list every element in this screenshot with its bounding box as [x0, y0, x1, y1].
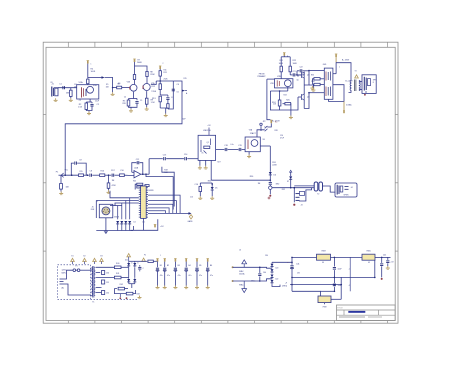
svg-text:C19: C19	[238, 145, 241, 147]
svg-text:D22: D22	[275, 279, 278, 281]
svg-text:C30: C30	[106, 272, 109, 274]
svg-text:Q5: Q5	[297, 80, 299, 82]
svg-text:2: 2	[163, 63, 164, 65]
svg-text:J6: J6	[239, 250, 241, 252]
svg-text:9VAC: 9VAC	[239, 284, 244, 287]
svg-text:R13: R13	[152, 98, 155, 100]
svg-text:T2: T2	[317, 194, 319, 196]
svg-text:U2A: U2A	[134, 166, 139, 169]
svg-text:C18: C18	[224, 145, 227, 147]
svg-text:1: 1	[339, 67, 340, 69]
svg-text:C6: C6	[177, 92, 179, 94]
svg-text:E2: E2	[84, 256, 86, 258]
svg-text:C6: C6	[177, 84, 179, 86]
svg-text:-9: -9	[349, 285, 351, 287]
svg-text:C2: C2	[79, 100, 81, 102]
svg-text:R32: R32	[282, 189, 285, 191]
svg-text:R11: R11	[164, 72, 167, 74]
svg-text:C10: C10	[120, 170, 123, 172]
svg-text:R36: R36	[311, 75, 314, 77]
svg-text:C31: C31	[106, 282, 109, 284]
svg-text:C12: C12	[136, 159, 139, 161]
svg-text:100K: 100K	[91, 71, 96, 73]
svg-text:D2: D2	[134, 222, 136, 224]
svg-text:T3: T3	[355, 71, 357, 73]
svg-text:C45: C45	[383, 254, 386, 256]
svg-text:R15: R15	[79, 171, 82, 173]
svg-text:R6: R6	[117, 83, 119, 85]
svg-text:100K: 100K	[293, 63, 298, 65]
svg-text:47u: 47u	[210, 275, 213, 277]
svg-text:0.1u: 0.1u	[230, 144, 233, 146]
svg-text:D11: D11	[125, 260, 128, 262]
svg-text:C14: C14	[184, 154, 187, 156]
svg-text:C21: C21	[292, 71, 295, 73]
svg-text:R25: R25	[286, 100, 289, 102]
svg-text:J4: J4	[351, 187, 353, 189]
svg-text:C16: C16	[190, 197, 193, 199]
svg-text:R23: R23	[284, 95, 287, 97]
svg-text:D5: D5	[215, 188, 217, 190]
svg-text:16F876: 16F876	[148, 190, 154, 192]
svg-text:8: 8	[373, 82, 374, 84]
svg-text:6.3VAC: 6.3VAC	[346, 104, 352, 107]
svg-text:B+ 230V: B+ 230V	[272, 120, 280, 122]
svg-text:F2: F2	[144, 255, 146, 257]
svg-text:4700u: 4700u	[251, 281, 256, 283]
svg-text:B2: B2	[167, 265, 169, 267]
svg-text:GATE: GATE	[187, 220, 193, 223]
svg-text:B3: B3	[178, 265, 180, 267]
svg-text:R11: R11	[164, 70, 167, 72]
svg-text:DIN: DIN	[91, 209, 95, 211]
svg-text:R20: R20	[133, 181, 136, 183]
svg-text:R40: R40	[116, 263, 119, 265]
svg-text:(REG): (REG)	[282, 285, 287, 287]
svg-text:1: 1	[137, 62, 138, 64]
svg-text:T1: T1	[264, 127, 266, 129]
svg-text:D7: D7	[287, 181, 289, 183]
svg-text:47u: 47u	[167, 275, 170, 277]
svg-text:B+ 285V: B+ 285V	[342, 60, 350, 62]
svg-text:C32: C32	[106, 292, 109, 294]
svg-text:B6: B6	[210, 265, 212, 267]
svg-text:VOL: VOL	[65, 170, 68, 172]
svg-text:100K: 100K	[279, 63, 284, 65]
svg-text:R27: R27	[217, 162, 220, 164]
svg-text:V1A: V1A	[79, 81, 84, 84]
svg-text:C22: C22	[299, 67, 302, 69]
svg-text:JP2: JP2	[263, 121, 266, 123]
svg-text:D20: D20	[265, 255, 268, 257]
svg-text:NE2: NE2	[276, 184, 280, 186]
svg-text:C40: C40	[263, 272, 266, 274]
svg-text:R16: R16	[100, 171, 103, 173]
svg-text:R42: R42	[120, 284, 123, 286]
svg-text:SPKR: SPKR	[344, 195, 350, 197]
svg-text:J3: J3	[301, 205, 303, 207]
svg-text:1.5K: 1.5K	[78, 107, 83, 109]
svg-text:R43: R43	[137, 294, 140, 296]
svg-text:Q2: Q2	[207, 142, 209, 144]
svg-text:B1: B1	[160, 265, 162, 267]
svg-text:47uF: 47uF	[280, 137, 284, 139]
svg-text:C9: C9	[79, 160, 81, 162]
svg-text:B5: B5	[199, 265, 201, 267]
svg-text:500mA: 500mA	[239, 273, 245, 276]
svg-text:22nF: 22nF	[182, 119, 186, 121]
svg-text:12AX7: 12AX7	[250, 132, 257, 135]
svg-text:100K: 100K	[138, 62, 143, 64]
svg-text:LND150: LND150	[203, 130, 211, 132]
svg-text:TITLE: TITLE	[337, 308, 343, 310]
svg-text:R30: R30	[250, 176, 253, 178]
svg-text:60Hz: 60Hz	[62, 272, 66, 274]
svg-text:R15: R15	[184, 78, 187, 80]
svg-text:R12: R12	[152, 86, 155, 88]
svg-text:R28: R28	[275, 130, 278, 132]
svg-text:9VAC: 9VAC	[239, 270, 244, 273]
svg-text:220K: 220K	[272, 165, 277, 167]
svg-text:PREAMP: PREAMP	[258, 75, 267, 78]
svg-text:120V: 120V	[62, 270, 67, 272]
svg-text:C5: C5	[140, 100, 142, 102]
svg-text:6N138: 6N138	[114, 217, 119, 219]
svg-text:7909: 7909	[322, 306, 326, 308]
svg-text:1M: 1M	[258, 183, 261, 185]
svg-text:C13: C13	[163, 154, 166, 156]
svg-text:F1: F1	[75, 266, 77, 268]
svg-text:R33: R33	[208, 181, 211, 183]
svg-text:47u: 47u	[188, 275, 191, 277]
svg-text:4x: 4x	[96, 201, 98, 203]
svg-text:1.5K: 1.5K	[151, 102, 156, 104]
svg-text:R24: R24	[272, 102, 275, 104]
svg-text:B4: B4	[188, 265, 190, 267]
svg-text:C4: C4	[124, 97, 126, 99]
svg-text:D6: D6	[274, 175, 276, 177]
svg-text:E3: E3	[101, 256, 103, 258]
svg-text:D20: D20	[275, 268, 278, 270]
svg-text:1: 1	[91, 64, 92, 66]
svg-text:V2B: V2B	[277, 76, 281, 78]
svg-text:47u: 47u	[160, 275, 163, 277]
svg-text:47u: 47u	[199, 275, 202, 277]
svg-text:C8: C8	[89, 171, 91, 173]
svg-text:U5: U5	[368, 262, 370, 264]
svg-text:47u: 47u	[178, 275, 181, 277]
svg-text:22uF: 22uF	[95, 101, 99, 103]
svg-text:R17: R17	[111, 170, 114, 172]
svg-text:T1: T1	[92, 302, 94, 304]
svg-text:R41: R41	[116, 273, 119, 275]
svg-text:E1: E1	[72, 256, 74, 258]
svg-text:B+ 275V: B+ 275V	[345, 81, 353, 83]
svg-text:1M: 1M	[112, 180, 115, 182]
svg-text:C16: C16	[195, 184, 198, 186]
svg-text:+9: +9	[285, 283, 287, 285]
svg-text:C41: C41	[296, 264, 299, 266]
svg-text:U4: U4	[322, 262, 324, 264]
svg-text:B+: B+	[287, 56, 289, 58]
svg-text:220K: 220K	[150, 74, 155, 76]
